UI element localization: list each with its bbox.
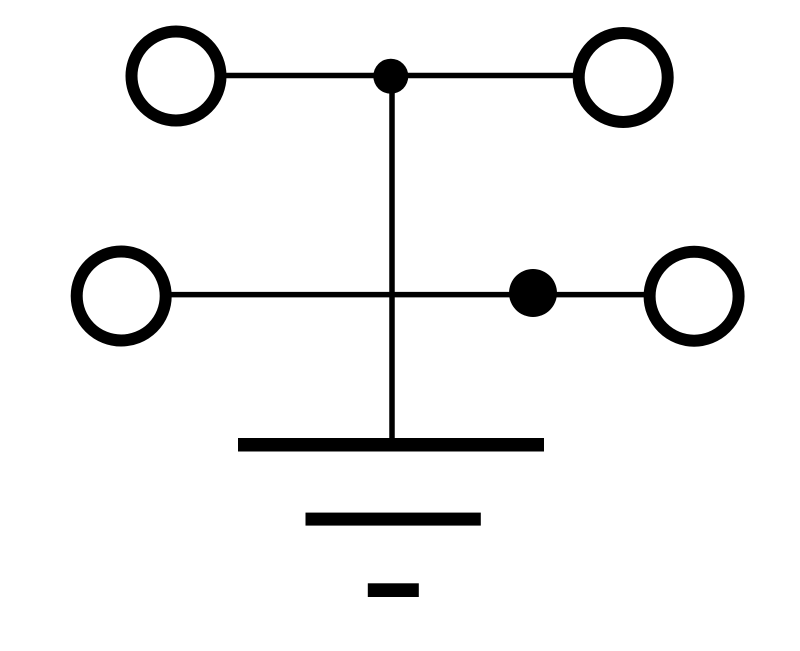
wire W1: top horizontal conductor bbox=[176, 73, 624, 79]
ground symbol (earth) bbox=[238, 438, 544, 597]
junction dot node B (middle bus tap) bbox=[509, 269, 557, 317]
junction dot node A (top bus tap) bbox=[373, 59, 408, 94]
wire W3: vertical conductor to ground bbox=[389, 76, 395, 444]
terminal circle P1 (top-left clamp point) bbox=[132, 32, 221, 121]
terminal circle P4 (middle-right clamp point) bbox=[650, 252, 739, 341]
terminal circle P2 (top-right clamp point) bbox=[579, 33, 668, 122]
terminal circle P3 (middle-left clamp point) bbox=[77, 252, 166, 341]
wire W2: middle horizontal conductor bbox=[121, 292, 694, 298]
